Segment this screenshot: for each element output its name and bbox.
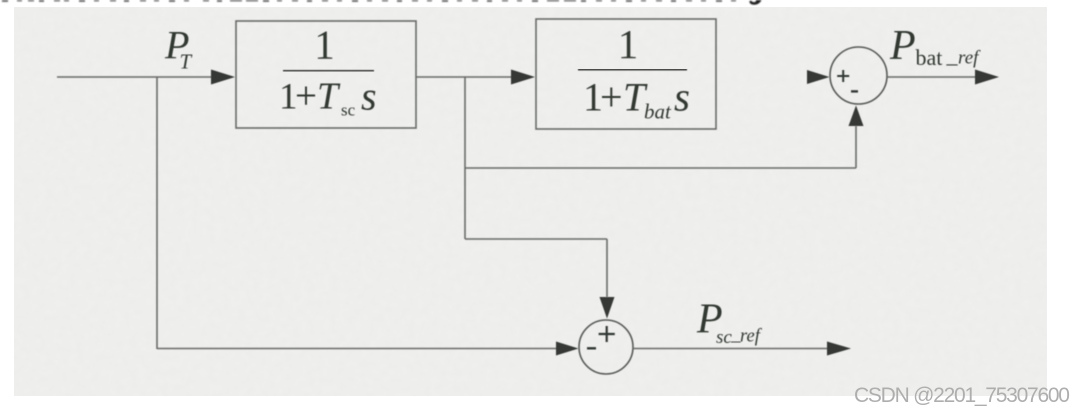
svg-text:+: + <box>600 75 623 120</box>
svg-text:bat: bat <box>644 100 672 124</box>
svg-text:+: + <box>295 75 317 118</box>
svg-text:_: _ <box>946 43 959 68</box>
svg-text:T: T <box>317 76 341 118</box>
svg-text:sc: sc <box>716 327 732 348</box>
svg-text:T: T <box>180 50 193 74</box>
svg-text:CSDN @2201_75307600: CSDN @2201_75307600 <box>854 384 1069 407</box>
svg-text:ref: ref <box>740 327 763 347</box>
svg-text:ref: ref <box>958 48 981 69</box>
svg-text:1: 1 <box>314 22 335 68</box>
svg-text:P: P <box>889 23 916 69</box>
svg-text:1: 1 <box>618 21 639 67</box>
svg-text:s: s <box>361 74 377 119</box>
svg-text:s: s <box>674 74 690 120</box>
svg-text:bat: bat <box>916 45 943 70</box>
svg-text:sc: sc <box>341 101 356 120</box>
